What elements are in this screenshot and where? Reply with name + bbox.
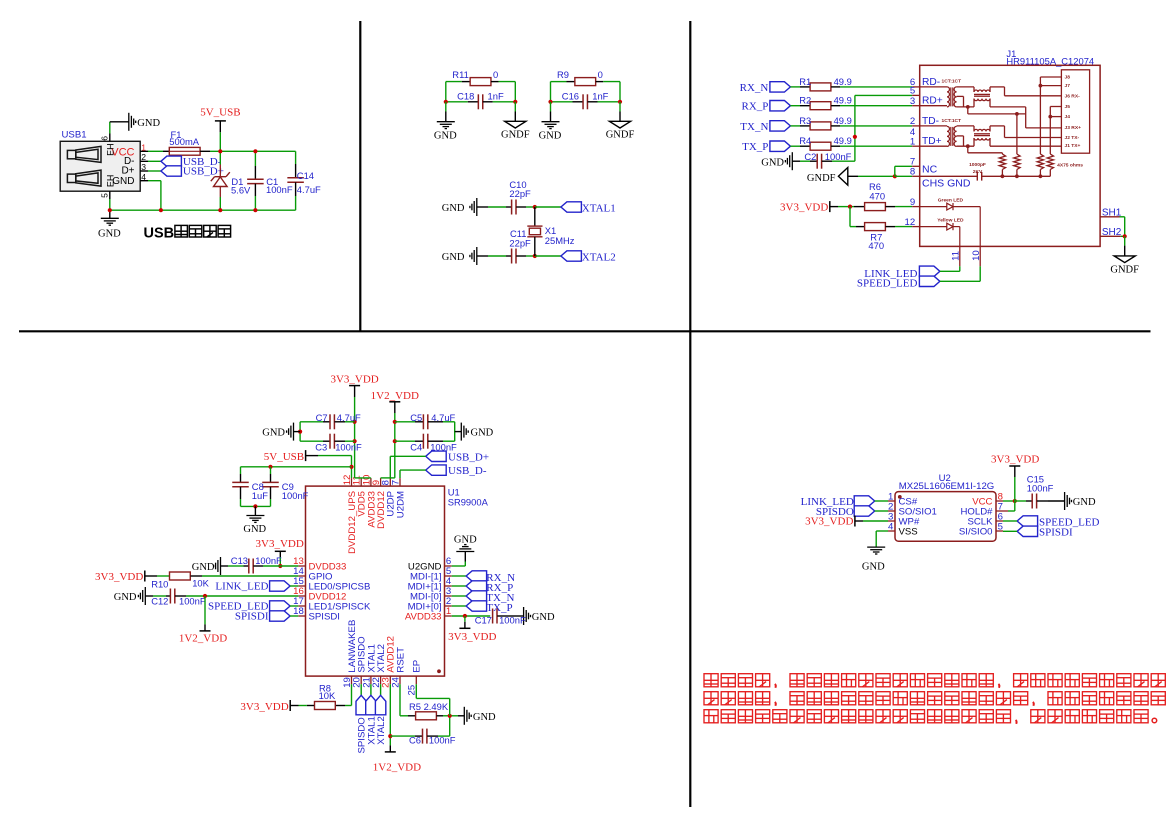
svg-text:XTAL1: XTAL1 — [582, 202, 616, 214]
svg-text:XTAL2: XTAL2 — [582, 251, 616, 263]
svg-text:GND: GND — [243, 524, 266, 535]
svg-text:MX25L1606EM1I-12G: MX25L1606EM1I-12G — [899, 481, 994, 492]
svg-text:R1: R1 — [799, 76, 811, 87]
svg-text:Yellow LED: Yellow LED — [937, 217, 964, 223]
svg-text:GNDF: GNDF — [501, 130, 530, 141]
svg-text:TX_N: TX_N — [740, 121, 768, 133]
svg-text:10K: 10K — [319, 690, 336, 701]
svg-text:C12: C12 — [151, 596, 168, 607]
svg-text:100nF: 100nF — [499, 615, 526, 626]
svg-text:100nF: 100nF — [1027, 483, 1054, 494]
svg-text:1V2_VDD: 1V2_VDD — [371, 390, 419, 402]
svg-text:11: 11 — [950, 251, 961, 261]
svg-text:4: 4 — [888, 522, 894, 533]
svg-text:GND: GND — [112, 176, 134, 187]
svg-text:GNDF: GNDF — [606, 130, 635, 141]
svg-text:5.6V: 5.6V — [231, 185, 251, 196]
svg-text:49.9: 49.9 — [834, 76, 852, 87]
svg-text:J1 TX+: J1 TX+ — [1065, 143, 1081, 149]
svg-text:5V_USB: 5V_USB — [264, 451, 304, 463]
svg-text:100nF: 100nF — [429, 734, 456, 745]
svg-text:GND: GND — [137, 118, 160, 129]
svg-text:25MHz: 25MHz — [545, 235, 575, 246]
svg-text:3V3_VDD: 3V3_VDD — [780, 201, 828, 213]
svg-text:GNDF: GNDF — [807, 173, 836, 184]
svg-text:4.7uF: 4.7uF — [297, 184, 321, 195]
svg-text:R4: R4 — [799, 135, 811, 146]
svg-text:3V3_VDD: 3V3_VDD — [448, 631, 496, 643]
svg-text:49.9: 49.9 — [834, 115, 852, 126]
svg-text:C14: C14 — [297, 170, 314, 181]
svg-text:1nF: 1nF — [592, 90, 608, 101]
svg-text:J5: J5 — [1065, 104, 1071, 110]
svg-text:C5: C5 — [410, 412, 422, 423]
svg-text:C13: C13 — [231, 555, 248, 566]
svg-text:R11: R11 — [452, 69, 469, 80]
svg-text:8: 8 — [910, 167, 915, 178]
svg-text:LINK_LED: LINK_LED — [215, 580, 268, 592]
svg-text:4.7uF: 4.7uF — [337, 412, 361, 423]
svg-text:GND: GND — [539, 130, 562, 141]
svg-text:GND: GND — [454, 535, 477, 546]
svg-text:J4: J4 — [1065, 114, 1071, 120]
svg-text:10: 10 — [971, 250, 982, 261]
svg-text:2KV: 2KV — [973, 169, 983, 175]
svg-text:C2: C2 — [804, 151, 816, 162]
svg-text:GND: GND — [442, 203, 465, 214]
svg-text:1V2_VDD: 1V2_VDD — [373, 761, 421, 773]
svg-text:R3: R3 — [799, 115, 811, 126]
svg-text:9: 9 — [910, 197, 915, 208]
svg-text:SR9900A: SR9900A — [448, 497, 489, 508]
svg-text:3: 3 — [910, 96, 915, 107]
svg-text:GND: GND — [1073, 497, 1096, 508]
svg-text:GND: GND — [98, 228, 121, 239]
svg-text:RX_N: RX_N — [740, 82, 769, 94]
svg-text:SPISDI: SPISDI — [309, 611, 340, 622]
svg-text:GND: GND — [442, 252, 465, 263]
svg-text:XTAL2: XTAL2 — [376, 716, 387, 745]
svg-text:U2DM: U2DM — [395, 491, 406, 518]
svg-text:GND: GND — [192, 562, 215, 573]
svg-text:RX_P: RX_P — [741, 101, 768, 113]
svg-text:GND: GND — [532, 612, 555, 623]
svg-text:USB_D-: USB_D- — [448, 465, 487, 477]
svg-text:100nF: 100nF — [255, 555, 282, 566]
svg-text:TX_P: TX_P — [742, 141, 768, 153]
svg-text:6: 6 — [99, 136, 109, 141]
svg-text:GNDF: GNDF — [1110, 264, 1139, 275]
svg-text:470: 470 — [869, 190, 885, 201]
svg-text:5V_USB: 5V_USB — [200, 106, 240, 118]
svg-text:R10: R10 — [151, 578, 168, 589]
svg-text:Green LED: Green LED — [938, 197, 964, 203]
svg-text:10K: 10K — [192, 577, 209, 588]
svg-text:GND: GND — [434, 130, 457, 141]
svg-text:1uF: 1uF — [252, 490, 268, 501]
svg-text:4.7uF: 4.7uF — [431, 412, 455, 423]
svg-text:HR911105A_C12074: HR911105A_C12074 — [1006, 56, 1094, 67]
svg-text:4X75 ohms: 4X75 ohms — [1057, 163, 1083, 169]
svg-text:7: 7 — [390, 480, 401, 485]
svg-text:EP: EP — [412, 660, 423, 673]
svg-text:C18: C18 — [457, 90, 474, 101]
svg-text:RSET: RSET — [395, 647, 406, 673]
svg-text:GND: GND — [862, 562, 885, 573]
svg-text:R9: R9 — [557, 69, 569, 80]
svg-text:VSS: VSS — [899, 526, 918, 537]
svg-text:CHS GND: CHS GND — [922, 177, 971, 189]
svg-text:1V2_VDD: 1V2_VDD — [179, 633, 227, 645]
svg-text:J3 RX+: J3 RX+ — [1065, 125, 1082, 131]
svg-text:C6: C6 — [409, 734, 421, 745]
svg-text:0: 0 — [493, 69, 498, 80]
svg-text:C17: C17 — [475, 615, 492, 626]
svg-text:GND: GND — [262, 428, 285, 439]
svg-text:3V3_VDD: 3V3_VDD — [991, 453, 1039, 465]
svg-text:1CT:1CT: 1CT:1CT — [942, 118, 962, 124]
svg-text:100nF: 100nF — [266, 184, 293, 195]
svg-text:1nF: 1nF — [488, 90, 504, 101]
svg-text:GND: GND — [761, 157, 784, 168]
svg-text:EH: EH — [105, 175, 115, 188]
svg-text:100nF: 100nF — [825, 151, 852, 162]
svg-text:TX_P: TX_P — [486, 602, 512, 614]
svg-text:J7: J7 — [1065, 83, 1071, 89]
svg-text:EH: EH — [105, 143, 115, 156]
svg-text:J8: J8 — [1065, 75, 1071, 81]
svg-text:C3: C3 — [315, 442, 327, 453]
svg-text:49.9: 49.9 — [834, 95, 852, 106]
svg-text:J6 RX-: J6 RX- — [1065, 93, 1081, 99]
svg-text:USB: USB — [144, 226, 175, 242]
svg-text:470: 470 — [868, 240, 884, 251]
svg-text:3V3_VDD: 3V3_VDD — [805, 515, 853, 527]
svg-text:0: 0 — [598, 69, 603, 80]
svg-text:SPISDI: SPISDI — [1039, 526, 1073, 538]
svg-text:5: 5 — [998, 522, 1003, 533]
svg-text:USB1: USB1 — [62, 130, 87, 141]
svg-text:GND: GND — [114, 592, 137, 603]
svg-text:1CT:1CT: 1CT:1CT — [942, 78, 962, 84]
svg-text:R5: R5 — [409, 701, 421, 712]
svg-text:J2 TX-: J2 TX- — [1065, 135, 1080, 141]
svg-text:500mA: 500mA — [169, 136, 199, 147]
svg-text:5: 5 — [99, 193, 109, 198]
svg-text:100nF: 100nF — [179, 596, 206, 607]
svg-text:USB_D+: USB_D+ — [448, 451, 489, 463]
svg-text:SPEED_LED: SPEED_LED — [857, 277, 918, 289]
svg-text:2.49K: 2.49K — [424, 701, 449, 712]
svg-text:3V3_VDD: 3V3_VDD — [240, 701, 288, 713]
svg-text:49.9: 49.9 — [834, 135, 852, 146]
svg-text:NC: NC — [922, 164, 938, 176]
svg-text:22pF: 22pF — [509, 188, 531, 199]
svg-text:1000pF: 1000pF — [969, 162, 986, 168]
svg-text:1: 1 — [446, 606, 451, 617]
svg-text:1: 1 — [910, 136, 915, 147]
svg-text:3V3_VDD: 3V3_VDD — [95, 571, 143, 583]
svg-text:C16: C16 — [562, 90, 579, 101]
svg-text:22pF: 22pF — [509, 237, 531, 248]
svg-text:SPISDI: SPISDI — [235, 610, 269, 622]
svg-text:2: 2 — [910, 116, 915, 127]
svg-text:SI/SIO0: SI/SIO0 — [959, 526, 993, 537]
svg-text:GND: GND — [473, 712, 496, 723]
svg-text:C7: C7 — [316, 412, 328, 423]
svg-text:3V3_VDD: 3V3_VDD — [256, 538, 304, 550]
svg-text:100nF: 100nF — [282, 490, 309, 501]
svg-text:AVDD33: AVDD33 — [405, 611, 442, 622]
svg-text:GND: GND — [471, 428, 494, 439]
svg-text:12: 12 — [905, 217, 916, 228]
svg-text:100nF: 100nF — [335, 442, 362, 453]
svg-text:USB_D+: USB_D+ — [183, 166, 224, 178]
svg-text:R2: R2 — [799, 95, 811, 106]
svg-text:3V3_VDD: 3V3_VDD — [330, 373, 378, 385]
svg-text:C4: C4 — [410, 442, 422, 453]
